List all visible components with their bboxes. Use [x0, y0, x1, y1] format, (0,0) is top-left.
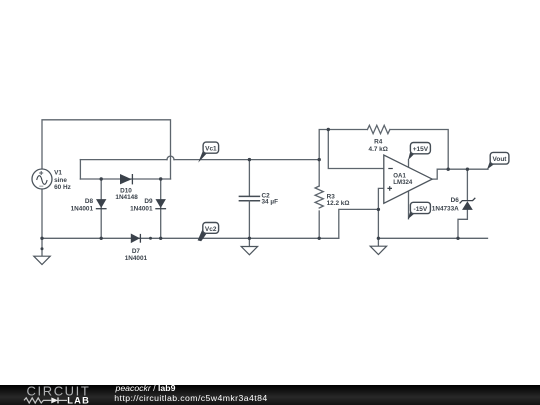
svg-text:Vc1: Vc1	[205, 146, 217, 153]
svg-text:1N4001: 1N4001	[130, 206, 153, 213]
svg-text:4.7 kΩ: 4.7 kΩ	[369, 146, 388, 153]
svg-text:V1: V1	[54, 170, 62, 177]
svg-text:sine: sine	[54, 177, 67, 184]
svg-text:LAB: LAB	[67, 395, 90, 405]
svg-text:1N4148: 1N4148	[115, 194, 138, 201]
svg-text:60 Hz: 60 Hz	[54, 184, 71, 191]
svg-text:peacockr / lab9: peacockr / lab9	[115, 383, 176, 393]
svg-text:D8: D8	[85, 198, 94, 205]
svg-text:Vout: Vout	[493, 156, 508, 163]
svg-text:1N4001: 1N4001	[125, 255, 148, 262]
svg-text:Vc2: Vc2	[205, 226, 217, 233]
svg-text:R4: R4	[374, 138, 383, 145]
svg-text:D9: D9	[144, 198, 153, 205]
svg-text:1N4001: 1N4001	[71, 206, 94, 213]
svg-text:+15V: +15V	[413, 146, 429, 153]
svg-text:34 µF: 34 µF	[262, 199, 279, 206]
svg-text:1N4733A: 1N4733A	[432, 206, 459, 213]
svg-text:-15V: -15V	[414, 206, 428, 213]
svg-text:12.2 kΩ: 12.2 kΩ	[327, 200, 350, 207]
svg-text:http://circuitlab.com/c5w4mkr3: http://circuitlab.com/c5w4mkr3a4t84	[114, 393, 267, 403]
svg-text:D7: D7	[132, 248, 141, 255]
svg-text:LM324: LM324	[393, 179, 413, 186]
svg-text:D6: D6	[451, 197, 460, 204]
